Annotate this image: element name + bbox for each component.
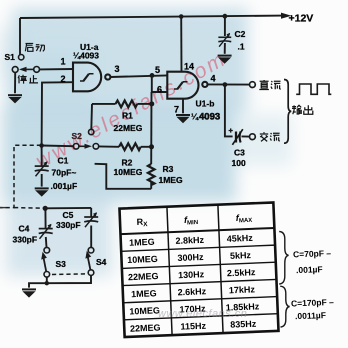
svg-text:C=170pF –: C=170pF – (291, 297, 334, 308)
svg-text:100: 100 (232, 158, 246, 168)
svg-text:5: 5 (155, 65, 160, 75)
svg-text:.0011µF: .0011µF (295, 310, 326, 321)
svg-text:1MEG: 1MEG (159, 175, 183, 185)
svg-text:4093: 4093 (199, 112, 220, 123)
svg-text:S1: S1 (5, 52, 16, 62)
svg-text:70pF~: 70pF~ (52, 168, 77, 178)
svg-text:7: 7 (174, 105, 179, 115)
svg-text:10MEG: 10MEG (114, 167, 143, 177)
svg-text:R3: R3 (163, 164, 174, 174)
svg-text:S2: S2 (72, 131, 83, 141)
svg-text:10MEG: 10MEG (127, 254, 158, 265)
svg-text:C3: C3 (234, 148, 245, 158)
svg-text:.001µF: .001µF (51, 181, 78, 191)
svg-text:S3: S3 (56, 259, 67, 269)
svg-text:22MEG: 22MEG (130, 322, 161, 333)
svg-text:22MEG: 22MEG (114, 123, 143, 133)
svg-text:R2: R2 (122, 158, 133, 168)
svg-text:300Hz: 300Hz (177, 252, 204, 263)
svg-text:U1-b: U1-b (196, 99, 215, 109)
svg-text:.1: .1 (238, 42, 245, 52)
svg-text:45kHz: 45kHz (227, 233, 254, 244)
svg-text:C4: C4 (19, 224, 30, 234)
svg-text:330pF: 330pF (13, 235, 38, 245)
svg-text:R1: R1 (122, 111, 133, 121)
svg-text:.001µF: .001µF (296, 264, 323, 275)
svg-text:2.5kHz: 2.5kHz (227, 267, 256, 278)
svg-text:2: 2 (61, 74, 66, 84)
svg-text:¼4093: ¼4093 (73, 51, 99, 61)
svg-text:5kHz: 5kHz (230, 250, 252, 261)
svg-text:+12V: +12V (289, 13, 314, 25)
svg-text:¼: ¼ (191, 112, 199, 122)
svg-text:22MEG: 22MEG (128, 271, 159, 282)
svg-text:1MEG: 1MEG (131, 288, 157, 299)
svg-text:C5: C5 (63, 210, 74, 220)
svg-text:330pF: 330pF (56, 220, 81, 230)
svg-text:6: 6 (157, 85, 162, 95)
svg-text:3: 3 (115, 64, 120, 74)
svg-text:130Hz: 130Hz (178, 269, 205, 280)
svg-text:10MEG: 10MEG (129, 305, 160, 316)
svg-text:www.elecfans.cn: www.elecfans.cn (158, 308, 247, 320)
svg-text:2.6kHz: 2.6kHz (177, 286, 206, 297)
svg-text:2.8kHz: 2.8kHz (175, 235, 204, 246)
svg-text:14: 14 (184, 62, 194, 72)
svg-text:17kHz: 17kHz (229, 284, 256, 295)
svg-text:1MEG: 1MEG (129, 237, 155, 248)
svg-text:4: 4 (211, 74, 216, 84)
svg-text:835Hz: 835Hz (230, 319, 257, 330)
svg-text:C=70pF –: C=70pF – (293, 248, 332, 259)
svg-text:115Hz: 115Hz (180, 321, 206, 332)
svg-text:1: 1 (61, 57, 66, 67)
svg-text:C1: C1 (58, 156, 69, 166)
svg-text:C2: C2 (235, 29, 246, 39)
svg-text:S4: S4 (96, 257, 107, 267)
